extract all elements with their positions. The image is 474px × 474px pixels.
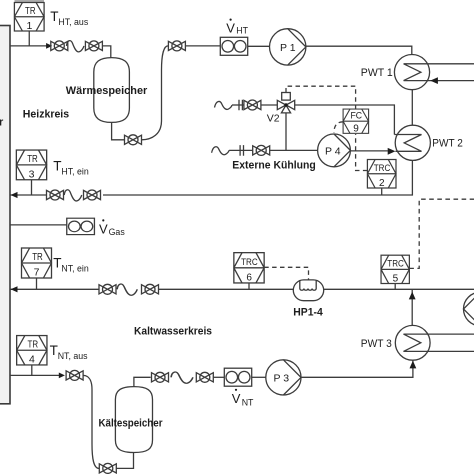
arrow into machine (left) xyxy=(11,192,18,198)
svg-text:Heizkreis: Heizkreis xyxy=(23,109,69,121)
pipe meter to P1 xyxy=(248,45,270,47)
control dashed TRC2 to FC9 xyxy=(356,134,368,171)
pipe xyxy=(232,104,244,106)
pipe HT supply (y=46) xyxy=(10,45,47,47)
wire TR1 drop xyxy=(28,31,30,46)
pipe vessel top to NT pump line xyxy=(134,377,151,386)
pump P1 xyxy=(270,29,306,65)
label T_NT,aus xyxy=(50,343,89,361)
pipe P4 to PWT2 xyxy=(350,150,388,152)
svg-text:PWT 1: PWT 1 xyxy=(361,67,393,79)
svg-text:T: T xyxy=(53,158,61,173)
svg-text:TR: TR xyxy=(32,252,43,263)
svg-text:HT, aus: HT, aus xyxy=(58,17,88,27)
heat exchanger PWT2 xyxy=(394,125,430,160)
pipe into vessel top xyxy=(102,46,110,58)
sensor TRC2 xyxy=(367,160,396,189)
heat exchanger PWT1 xyxy=(394,55,474,90)
svg-text:V: V xyxy=(232,391,241,406)
svg-text:T: T xyxy=(50,9,58,24)
pipe to P4 xyxy=(270,149,318,151)
svg-text:Wärmespeicher: Wärmespeicher xyxy=(66,85,148,97)
svg-text:6: 6 xyxy=(246,272,252,283)
pipe to HP xyxy=(159,288,294,290)
valve xyxy=(84,190,101,200)
label T_HT,aus xyxy=(50,9,89,27)
valve xyxy=(47,190,64,200)
pipe V2 to PWT2 upper xyxy=(295,105,395,135)
control dashed TRC5 to boundary xyxy=(409,199,474,268)
vessel Kältespeicher xyxy=(115,387,152,453)
sensor TR7 xyxy=(22,248,52,279)
flex hose xyxy=(66,41,84,52)
svg-text:P 3: P 3 xyxy=(274,373,290,385)
svg-text:T: T xyxy=(53,255,61,270)
three-way valve V2 xyxy=(277,93,294,113)
svg-text:V2: V2 xyxy=(267,113,280,125)
flex hose xyxy=(117,284,137,295)
valve xyxy=(66,370,83,380)
svg-text:P 1: P 1 xyxy=(280,42,296,54)
svg-text:7: 7 xyxy=(34,267,40,279)
sensor TR1 xyxy=(14,2,44,32)
wire TRC2 drop xyxy=(381,188,383,195)
controller FC9 xyxy=(343,109,369,135)
pipe HT return into machine xyxy=(10,194,47,196)
control dashed FC9 to P4 xyxy=(334,122,343,133)
valve xyxy=(85,41,102,51)
pipe PWT1 to PWT2 xyxy=(411,90,413,126)
svg-text:Kaltwasserkreis: Kaltwasserkreis xyxy=(134,326,212,338)
wire TR7 drop xyxy=(36,278,38,289)
valve bottom xyxy=(99,463,116,473)
wire TR4 drop xyxy=(31,365,33,375)
valve xyxy=(142,284,159,294)
heat exchanger PWT3 xyxy=(395,325,474,360)
svg-text:FC: FC xyxy=(351,111,363,122)
pipe to V2 xyxy=(261,104,278,106)
svg-text:TR: TR xyxy=(27,154,38,165)
label V_HT xyxy=(226,19,248,36)
wire TRC5 drop xyxy=(394,284,396,290)
pipe gas line xyxy=(10,224,67,226)
pipe V2 drop to P4 line xyxy=(285,113,287,150)
svg-text:HT: HT xyxy=(236,25,248,35)
flow meter V_NT xyxy=(224,368,251,386)
pipe P1 to PWT1 xyxy=(306,46,412,54)
grey strip above TR1 (cropped figure edge) xyxy=(15,0,45,3)
pipe PWT2 bottom to return line xyxy=(103,160,412,195)
heat pump HP1-4 xyxy=(293,280,323,301)
break ticks xyxy=(240,145,243,156)
arrow into PWT1 (left) xyxy=(430,77,438,84)
valve xyxy=(51,41,68,51)
pump P3 xyxy=(266,360,301,395)
svg-text:TR: TR xyxy=(28,339,39,350)
svg-text:HT, ein: HT, ein xyxy=(61,167,88,177)
valve xyxy=(253,145,270,155)
label V_NT xyxy=(232,389,254,408)
svg-text:Kältespeicher: Kältespeicher xyxy=(99,417,164,429)
external cooling lower line: squiggle xyxy=(212,147,230,155)
pipe bottom to vessel xyxy=(116,453,133,469)
pipe NT line down to PWT3 with up arrow xyxy=(411,289,413,326)
label T_HT,ein xyxy=(53,158,89,176)
arrow up into PWT3 xyxy=(410,361,417,369)
label V_Gas xyxy=(99,219,125,237)
pipe S-curve up to HT line xyxy=(142,46,169,140)
pipe NT return from machine xyxy=(10,374,60,376)
flex hose xyxy=(64,190,82,201)
pipe P3 line up into PWT3 bottom xyxy=(301,360,413,377)
svg-text:PWT 2: PWT 2 xyxy=(432,138,463,150)
external cooling upper line: squiggle xyxy=(215,101,233,109)
svg-text:TRC: TRC xyxy=(374,163,391,174)
valve xyxy=(99,284,116,294)
pipe curve down to bottom valve xyxy=(83,375,99,468)
sensor TR3 xyxy=(16,150,46,180)
pipe xyxy=(229,149,253,151)
svg-text:NT: NT xyxy=(242,397,254,407)
control dashed V2 to FC9 xyxy=(286,86,356,109)
break ticks xyxy=(239,100,242,111)
svg-text:PWT 3: PWT 3 xyxy=(361,338,392,350)
svg-text:NT, aus: NT, aus xyxy=(58,351,88,361)
valve xyxy=(152,372,169,382)
svg-text:1: 1 xyxy=(26,20,32,32)
svg-text:Gas: Gas xyxy=(109,227,126,237)
control dashed TRC6 to HP xyxy=(264,267,308,280)
svg-text:Externe Kühlung: Externe Kühlung xyxy=(232,159,315,171)
pipe HP to right edge xyxy=(324,288,474,290)
svg-text:TR: TR xyxy=(25,6,36,17)
svg-text:V: V xyxy=(226,21,235,36)
svg-text:9: 9 xyxy=(353,124,359,135)
arrow flow right xyxy=(46,43,52,49)
svg-text:2: 2 xyxy=(379,178,385,189)
pipe meter to P3 xyxy=(252,376,266,378)
pipe to meter xyxy=(213,376,224,378)
vessel Wärmespeicher xyxy=(94,58,130,123)
sensor TRC6 xyxy=(234,253,264,284)
machine (BHKW unit, cut off at left edge) xyxy=(0,26,10,404)
svg-text:3: 3 xyxy=(29,168,35,180)
valve xyxy=(168,41,185,51)
arrow flow right xyxy=(59,373,65,379)
label T_NT,ein xyxy=(53,255,89,273)
wire TRC6 drop xyxy=(248,283,250,289)
pipe NT supply line (y=289.3) xyxy=(10,288,99,290)
arrow into PWT2 (right) xyxy=(388,148,396,155)
svg-text:P 4: P 4 xyxy=(325,146,341,158)
flex hose xyxy=(171,372,193,383)
valve xyxy=(196,372,213,382)
svg-text:NT, ein: NT, ein xyxy=(61,264,88,274)
svg-text:TRC: TRC xyxy=(387,259,404,270)
pipe vessel bottom out xyxy=(112,122,125,139)
arrow into machine (left) xyxy=(11,286,18,292)
svg-text:TRC: TRC xyxy=(241,257,258,268)
svg-text:5: 5 xyxy=(393,273,399,284)
svg-text:4: 4 xyxy=(29,354,35,366)
svg-text:HP1-4: HP1-4 xyxy=(293,307,323,319)
sensor TRC5 xyxy=(381,255,409,284)
sensor TR4 xyxy=(17,336,47,366)
pipe to flow meter xyxy=(185,45,220,47)
valve xyxy=(244,100,261,110)
wire TR3 drop xyxy=(31,180,33,195)
arrow up into NT line xyxy=(409,292,416,300)
valve vessel bottom xyxy=(125,135,142,145)
svg-text:T: T xyxy=(50,343,58,358)
flow meter V_Gas xyxy=(67,218,95,234)
pump P4 xyxy=(318,134,351,167)
pump (cut at right edge) xyxy=(464,292,474,326)
svg-text:V: V xyxy=(99,221,108,236)
flow meter V_HT xyxy=(220,37,247,55)
